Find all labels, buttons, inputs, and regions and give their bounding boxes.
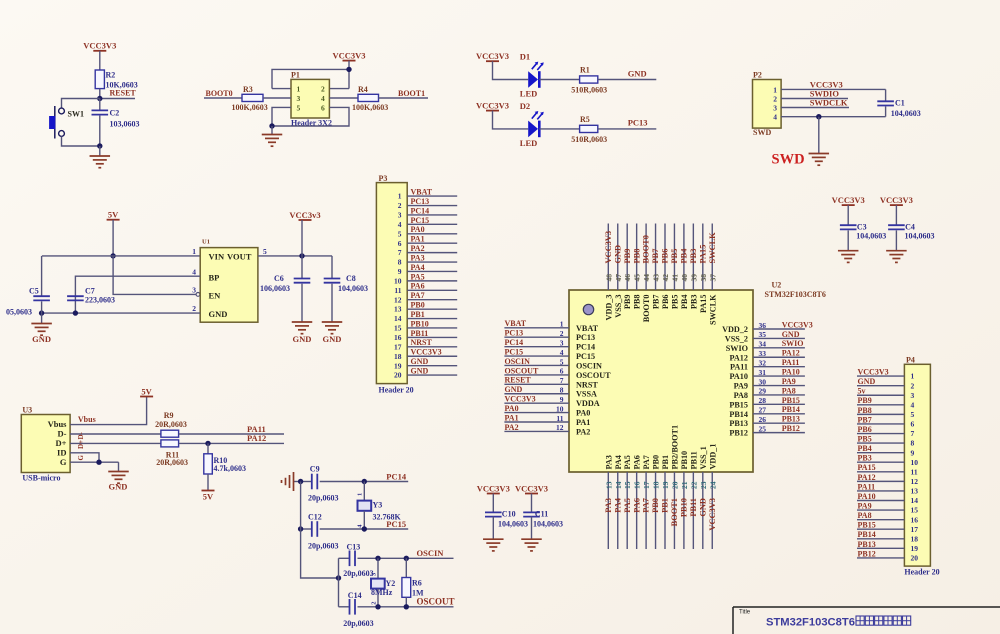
svg-text:PB11: PB11 <box>411 329 429 338</box>
svg-text:R1: R1 <box>580 66 590 75</box>
svg-text:P4: P4 <box>906 356 915 365</box>
svg-text:C5: C5 <box>29 287 39 296</box>
pin 24 VDD_1 (bottom) <box>708 444 717 549</box>
svg-text:PC15: PC15 <box>386 519 406 529</box>
svg-text:43: 43 <box>652 274 661 282</box>
svg-text:PB0: PB0 <box>411 301 425 310</box>
svg-text:PB9: PB9 <box>623 295 632 310</box>
power VCC3V3 (C4) <box>880 195 913 205</box>
node GND (P3 pin 19) <box>407 357 457 366</box>
svg-text:PA8: PA8 <box>734 391 748 400</box>
svg-text:31: 31 <box>759 368 767 377</box>
svg-text:15: 15 <box>623 481 632 489</box>
pin 4 PC15 (left) <box>504 347 595 361</box>
node VBAT (P3 pin 1) <box>407 188 457 197</box>
svg-text:R3: R3 <box>243 85 253 94</box>
svg-text:C9: C9 <box>310 465 320 474</box>
node GND (P4 pin 2) <box>857 377 904 386</box>
ground (C6) <box>292 322 313 344</box>
pin 27 PB14 (right) <box>729 405 805 419</box>
pin 11 PA1 (left) <box>504 413 590 427</box>
svg-text:PC13: PC13 <box>505 329 524 338</box>
pin 13 PA3 (bottom) <box>604 455 613 549</box>
power 5V (Vbus) <box>140 386 153 396</box>
svg-text:18: 18 <box>652 481 661 489</box>
svg-text:P1: P1 <box>291 71 300 80</box>
svg-text:SWCLK: SWCLK <box>708 232 717 264</box>
svg-text:20R,0603: 20R,0603 <box>155 420 187 429</box>
svg-text:OSCIN: OSCIN <box>576 361 602 370</box>
node GND (D1) <box>598 68 657 79</box>
svg-text:4: 4 <box>560 348 564 357</box>
svg-text:1: 1 <box>560 320 564 329</box>
node RESET <box>97 89 136 102</box>
node PA4 (P3 pin 9) <box>407 263 457 272</box>
svg-text:PB9: PB9 <box>623 249 632 264</box>
svg-text:PB11: PB11 <box>689 498 698 517</box>
svg-text:6: 6 <box>321 104 325 113</box>
svg-text:PB15: PB15 <box>782 396 800 405</box>
node PA6 (P3 pin 11) <box>407 282 457 291</box>
svg-text:510R,0603: 510R,0603 <box>571 86 607 95</box>
svg-text:STM32F103C8T6: STM32F103C8T6 <box>765 290 826 299</box>
svg-text:PC14: PC14 <box>411 206 430 215</box>
svg-text:PC14: PC14 <box>576 343 595 352</box>
node SWDCLK <box>781 98 849 108</box>
svg-text:PB7: PB7 <box>652 295 661 310</box>
svg-text:15: 15 <box>394 324 402 333</box>
svg-text:PA12: PA12 <box>782 349 800 358</box>
svg-text:PB14: PB14 <box>729 410 748 419</box>
svg-text:23: 23 <box>699 481 708 489</box>
svg-text:OSCOUT: OSCOUT <box>505 366 539 375</box>
svg-text:VBAT: VBAT <box>576 324 599 333</box>
svg-text:PB4: PB4 <box>680 295 689 310</box>
wire 5V to VIN row <box>112 220 114 256</box>
ground (crystal, rotated) <box>282 472 301 491</box>
svg-text:R2: R2 <box>106 71 116 80</box>
svg-text:PB0: PB0 <box>652 455 661 470</box>
svg-text:PA0: PA0 <box>411 225 425 234</box>
svg-text:PA7: PA7 <box>642 455 651 469</box>
wire D2 to R5 <box>539 128 579 130</box>
node PA8 (P4 pin 16) <box>857 511 904 520</box>
node VCC3V3 (P4 pin 1) <box>857 368 904 377</box>
svg-text:Y2: Y2 <box>386 579 396 588</box>
svg-text:PA1: PA1 <box>576 418 590 427</box>
svg-text:PB11: PB11 <box>689 451 698 469</box>
svg-text:PA3: PA3 <box>604 498 613 513</box>
svg-text:C10: C10 <box>502 510 516 519</box>
resistor R10 pullup <box>204 443 246 490</box>
svg-text:VSS_3: VSS_3 <box>614 295 623 318</box>
wire pin4 to R4 <box>329 97 358 99</box>
node BOOT0 <box>204 89 242 98</box>
title block border <box>733 606 1000 608</box>
capacitor C10 <box>485 494 528 540</box>
svg-text:PC13: PC13 <box>628 118 648 128</box>
pin 14 PA4 (bottom) <box>613 455 622 549</box>
svg-text:C7: C7 <box>85 287 95 296</box>
svg-text:GND: GND <box>209 309 228 319</box>
switch SW1 <box>50 106 84 139</box>
wire pin2 <box>329 88 349 90</box>
pin 5 OSCIN (left) <box>504 357 602 371</box>
svg-text:PA10: PA10 <box>730 372 749 381</box>
svg-text:1: 1 <box>398 192 402 201</box>
node VCC3V3 (P2 pin1) <box>781 79 886 89</box>
svg-text:16: 16 <box>394 333 402 342</box>
svg-text:GND: GND <box>411 366 429 375</box>
svg-text:2: 2 <box>370 602 377 605</box>
ground (C11) <box>521 538 542 540</box>
svg-text:PC14: PC14 <box>386 471 407 481</box>
svg-text:PA15: PA15 <box>858 463 876 472</box>
wire ID to G <box>70 453 99 462</box>
power VCC3V3 (D2) <box>476 100 509 110</box>
capacitor C8 <box>324 256 368 322</box>
svg-text:13: 13 <box>394 305 402 314</box>
svg-text:VDD_1: VDD_1 <box>708 444 717 470</box>
wire PC14 row <box>301 481 311 483</box>
pin 19 PB1 (bottom) <box>661 455 670 549</box>
svg-text:104,0603: 104,0603 <box>533 520 563 529</box>
ground (C8) <box>322 322 343 344</box>
pin 18 PB0 (bottom) <box>651 455 660 549</box>
resistor R1 <box>571 66 607 95</box>
svg-text:Title: Title <box>739 610 751 616</box>
capacitor C4 <box>888 205 934 251</box>
svg-text:STM32F103C8T6: STM32F103C8T6 <box>766 617 855 629</box>
node PB5 (P4 pin 8) <box>857 434 904 443</box>
svg-text:SW1: SW1 <box>68 110 84 119</box>
wire VCC to D2 <box>493 111 529 129</box>
svg-text:11: 11 <box>556 414 563 423</box>
svg-text:9: 9 <box>911 448 915 457</box>
svg-text:C3: C3 <box>857 222 867 231</box>
svg-text:NRST: NRST <box>576 380 598 389</box>
svg-text:27: 27 <box>759 406 767 415</box>
svg-text:PB3: PB3 <box>858 454 872 463</box>
wire RESET to switch <box>62 99 100 109</box>
svg-text:18: 18 <box>911 534 919 543</box>
svg-text:104,0603: 104,0603 <box>891 109 921 118</box>
svg-text:5v: 5v <box>858 387 866 396</box>
svg-text:U2: U2 <box>772 281 782 290</box>
svg-text:1: 1 <box>297 85 301 94</box>
pin 43 PB7 (top) <box>651 224 660 310</box>
svg-text:GND: GND <box>613 245 622 264</box>
svg-text:C1: C1 <box>895 98 905 107</box>
resistor R9 <box>155 411 187 437</box>
svg-text:GND: GND <box>858 377 876 386</box>
svg-text:106,0603: 106,0603 <box>260 284 290 293</box>
svg-text:PB6: PB6 <box>661 295 670 310</box>
node PA12 <box>179 433 284 446</box>
svg-text:12: 12 <box>911 477 919 486</box>
wire 5V to EN <box>113 256 196 295</box>
svg-text:VCC3V3: VCC3V3 <box>332 50 365 60</box>
svg-text:GND: GND <box>32 334 51 344</box>
node PB12 (P4 pin 20) <box>857 549 904 558</box>
wire pin1 <box>272 88 291 90</box>
svg-text:1: 1 <box>357 493 364 496</box>
svg-text:PA4: PA4 <box>613 497 622 513</box>
capacitor C1 <box>877 89 921 118</box>
wire D- to R9 <box>70 433 161 435</box>
svg-text:5: 5 <box>398 229 402 238</box>
node PB14 (P4 pin 18) <box>857 530 904 539</box>
power VCC3V3 (C3) <box>832 195 865 205</box>
svg-text:VCC3V3: VCC3V3 <box>476 51 509 61</box>
svg-text:VCC3V3: VCC3V3 <box>604 231 613 264</box>
svg-text:OSCIN: OSCIN <box>505 357 531 366</box>
regulator U1 <box>192 239 267 323</box>
svg-text:30: 30 <box>759 377 767 386</box>
svg-text:PC15: PC15 <box>505 347 524 356</box>
svg-text:VCC3V3: VCC3V3 <box>708 498 717 531</box>
svg-text:GND: GND <box>698 498 707 517</box>
svg-text:10: 10 <box>556 404 564 413</box>
svg-text:PB13: PB13 <box>782 415 800 424</box>
ground (boot) <box>262 126 283 146</box>
svg-text:13: 13 <box>604 481 613 489</box>
svg-text:5V: 5V <box>203 492 214 502</box>
node PC13 (D2) <box>598 118 657 129</box>
svg-text:510R,0603: 510R,0603 <box>571 135 607 144</box>
svg-text:PA1: PA1 <box>411 235 425 244</box>
svg-text:8MHz: 8MHz <box>371 588 393 597</box>
connector P3 Header 20 <box>376 174 413 395</box>
svg-text:104,0603: 104,0603 <box>856 232 886 241</box>
pin 37 SWCLK (top) <box>708 224 717 325</box>
svg-text:VCC3V3: VCC3V3 <box>832 195 865 205</box>
svg-text:NRST: NRST <box>411 338 433 347</box>
svg-text:21: 21 <box>680 481 689 489</box>
pin 15 PA5 (bottom) <box>623 455 632 549</box>
wire GND row <box>42 312 201 314</box>
svg-text:VCC3V3: VCC3V3 <box>476 100 509 110</box>
node PB10 (P3 pin 15) <box>407 319 457 328</box>
svg-text:41: 41 <box>670 274 679 282</box>
svg-text:SWIO: SWIO <box>726 344 748 353</box>
pin 42 PB6 (top) <box>661 224 670 310</box>
svg-text:PA2: PA2 <box>505 423 519 432</box>
svg-text:PB4: PB4 <box>858 444 872 453</box>
svg-text:VSS_1: VSS_1 <box>699 446 708 469</box>
wire BP row <box>75 276 200 313</box>
svg-text:C14: C14 <box>348 591 362 600</box>
svg-text:PA9: PA9 <box>858 501 872 510</box>
wire VIN row <box>42 255 200 257</box>
node PA0 (P3 pin 5) <box>407 225 457 234</box>
svg-text:PB8: PB8 <box>633 295 642 310</box>
svg-text:P2: P2 <box>753 71 762 80</box>
svg-text:20p,0603: 20p,0603 <box>343 619 373 628</box>
svg-text:9: 9 <box>560 395 564 404</box>
svg-text:20R,0603: 20R,0603 <box>156 458 188 467</box>
svg-text:VCC3V3: VCC3V3 <box>411 348 442 357</box>
svg-text:2: 2 <box>560 329 564 338</box>
ground (C10) <box>483 538 504 540</box>
svg-text:47: 47 <box>614 274 623 282</box>
svg-text:R6: R6 <box>412 579 422 588</box>
svg-text:15: 15 <box>911 506 919 515</box>
svg-text:PA8: PA8 <box>858 511 872 520</box>
svg-text:12: 12 <box>394 295 402 304</box>
power VCC3V3 (boot) <box>332 50 365 60</box>
svg-text:C12: C12 <box>308 513 322 522</box>
svg-text:28: 28 <box>759 396 767 405</box>
svg-text:17: 17 <box>642 481 651 489</box>
pin 22 PB11 (bottom) <box>689 451 698 549</box>
svg-text:PA0: PA0 <box>505 404 519 413</box>
svg-text:1: 1 <box>911 372 915 381</box>
node SWDIO <box>781 88 848 98</box>
svg-text:PA4: PA4 <box>411 263 425 272</box>
pin 47 VSS_3 (top) <box>613 224 622 318</box>
svg-text:10: 10 <box>394 276 402 285</box>
svg-text:PB0: PB0 <box>651 498 660 513</box>
wire D1 to R1 <box>539 79 579 81</box>
pin 46 PB9 (top) <box>623 224 632 310</box>
svg-text:PA2: PA2 <box>576 427 590 436</box>
svg-text:VCC3v3: VCC3v3 <box>289 210 320 220</box>
node NRST (P3 pin 17) <box>407 338 457 347</box>
node PB9 (P4 pin 4) <box>857 396 904 405</box>
capacitor C6 <box>260 256 310 322</box>
node PB15 (P4 pin 17) <box>857 521 904 530</box>
svg-text:LED: LED <box>520 138 537 148</box>
svg-text:4: 4 <box>773 113 777 122</box>
pin 16 PA6 (bottom) <box>632 455 641 549</box>
svg-text:16: 16 <box>633 481 642 489</box>
svg-text:4: 4 <box>911 400 915 409</box>
svg-text:20: 20 <box>670 481 679 489</box>
svg-text:PA15: PA15 <box>699 295 708 314</box>
power VCC3v3 (regulator out) <box>289 210 320 256</box>
svg-text:PA5: PA5 <box>411 272 425 281</box>
svg-text:OSCIN: OSCIN <box>417 548 445 558</box>
connector U3 USB-micro <box>21 406 70 483</box>
svg-text:7: 7 <box>911 429 915 438</box>
svg-text:PC15: PC15 <box>576 352 595 361</box>
svg-text:20p,0603: 20p,0603 <box>343 569 373 578</box>
svg-text:D-: D- <box>77 431 85 439</box>
svg-text:PB5: PB5 <box>670 249 679 264</box>
svg-text:PB1: PB1 <box>661 455 670 470</box>
node PB0 (P3 pin 13) <box>407 301 457 310</box>
svg-text:6: 6 <box>398 239 402 248</box>
svg-text:35: 35 <box>759 330 767 339</box>
svg-text:PA0: PA0 <box>576 409 590 418</box>
svg-text:VSS_2: VSS_2 <box>725 334 748 343</box>
svg-text:PB12: PB12 <box>858 549 876 558</box>
connector P2 SWD <box>753 71 782 138</box>
svg-text:PA11: PA11 <box>782 358 800 367</box>
svg-text:PB6: PB6 <box>858 425 872 434</box>
pin 32 PA11 (right) <box>730 358 805 372</box>
svg-text:10: 10 <box>911 458 919 467</box>
node PA10 (P4 pin 14) <box>857 492 904 501</box>
pin 31 PA10 (right) <box>730 368 805 382</box>
node PC14 (P3 pin 3) <box>407 206 457 215</box>
svg-text:PA11: PA11 <box>730 363 748 372</box>
pin 2 PC13 (left) <box>504 329 595 343</box>
wire D+ to R11 <box>70 442 161 444</box>
pin 6 OSCOUT (left) <box>504 366 611 380</box>
pin 48 VDD_3 (top) <box>604 224 613 321</box>
pin 17 PA7 (bottom) <box>642 455 651 549</box>
pin 7 NRST (left) <box>504 376 598 390</box>
svg-text:BOOT1: BOOT1 <box>670 498 679 526</box>
svg-text:PB5: PB5 <box>858 434 872 443</box>
svg-text:9: 9 <box>398 267 402 276</box>
title chinese glyphs <box>856 616 911 625</box>
svg-text:VCC3V3: VCC3V3 <box>505 395 536 404</box>
pin 8 VSSA (left) <box>504 385 597 399</box>
svg-text:7: 7 <box>560 376 564 385</box>
pin 41 PB5 (top) <box>670 224 679 310</box>
svg-text:PB8: PB8 <box>632 249 641 264</box>
node PC15 (P3 pin 4) <box>407 216 457 225</box>
svg-text:100K,0603: 100K,0603 <box>352 103 388 112</box>
pin 34 SWIO (right) <box>726 339 805 353</box>
wire R3 to pin3 <box>263 97 291 99</box>
node PB6 (P4 pin 7) <box>857 425 904 434</box>
svg-text:PB3: PB3 <box>689 249 698 264</box>
svg-text:17: 17 <box>394 342 402 351</box>
svg-text:SWCLK: SWCLK <box>708 294 717 325</box>
wire P1 pins 5,6 to ground <box>272 107 291 126</box>
svg-text:20p,0603: 20p,0603 <box>308 542 338 551</box>
capacitor C5 <box>6 256 50 317</box>
svg-text:4.7k,0603: 4.7k,0603 <box>214 464 246 473</box>
svg-text:SWD: SWD <box>772 152 805 168</box>
svg-text:PB13: PB13 <box>858 540 876 549</box>
pin 1 VBAT (left) <box>504 319 598 333</box>
ground (C5) <box>31 313 51 344</box>
svg-text:2: 2 <box>773 95 777 104</box>
node PA9 (P4 pin 15) <box>857 501 904 510</box>
svg-text:PB10: PB10 <box>411 319 429 328</box>
pin 20 PB2/BOOT1 (bottom) <box>670 425 679 549</box>
svg-text:39: 39 <box>689 274 698 282</box>
svg-text:VBAT: VBAT <box>505 319 527 328</box>
svg-text:6: 6 <box>911 420 915 429</box>
wire left rail (8M) <box>338 558 340 607</box>
svg-text:PB12: PB12 <box>782 424 800 433</box>
svg-text:104,0603: 104,0603 <box>905 232 935 241</box>
pin 40 PB4 (top) <box>680 224 689 310</box>
svg-text:PA6: PA6 <box>411 282 425 291</box>
svg-text:45: 45 <box>633 274 642 282</box>
svg-text:Vbus: Vbus <box>78 415 96 424</box>
svg-text:2: 2 <box>911 381 915 390</box>
crystal Y2 <box>370 558 395 607</box>
svg-text:8: 8 <box>911 439 915 448</box>
svg-text:VDDA: VDDA <box>576 399 600 408</box>
svg-text:26: 26 <box>759 415 767 424</box>
svg-text:G: G <box>60 457 67 467</box>
svg-text:14: 14 <box>911 496 919 505</box>
svg-text:29: 29 <box>759 387 767 396</box>
svg-text:5V: 5V <box>108 210 119 220</box>
wire OSCOUT row <box>339 606 349 608</box>
LED D2 <box>520 101 544 148</box>
svg-text:4: 4 <box>321 94 325 103</box>
pin 29 PA8 (right) <box>734 386 805 400</box>
